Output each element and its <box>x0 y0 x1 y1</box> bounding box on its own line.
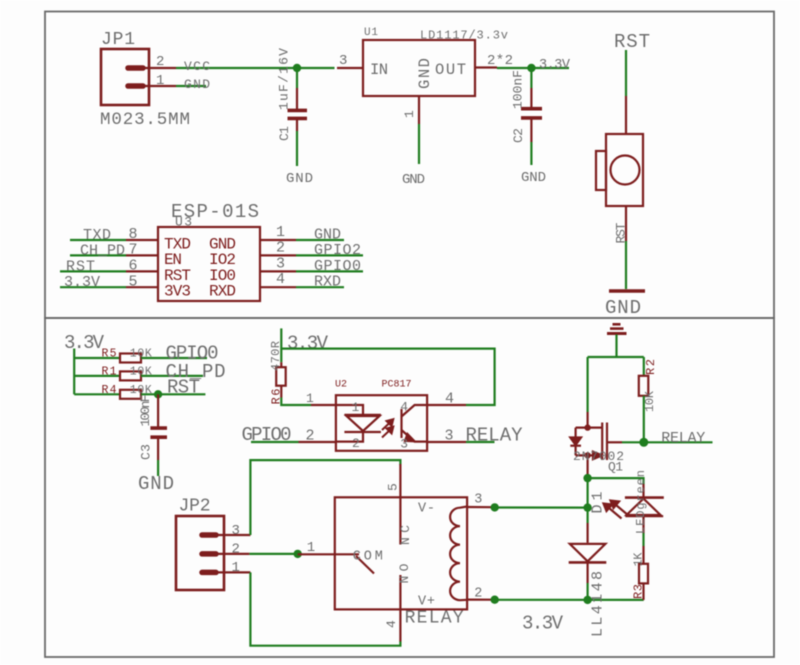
wire JP2 pin2 to COM <box>249 553 297 555</box>
net RXD <box>296 274 344 291</box>
wire row3 <box>74 393 120 395</box>
svg-text:RST: RST <box>614 222 629 243</box>
svg-text:C2: C2 <box>511 128 526 143</box>
svg-text:VCC: VCC <box>184 59 210 74</box>
resistor R1 <box>102 366 152 381</box>
svg-text:IN: IN <box>370 61 388 79</box>
wire OUT to 3.3V <box>497 67 569 69</box>
svg-text:GND: GND <box>402 172 425 188</box>
node OUT junction <box>527 64 535 72</box>
svg-text:2: 2 <box>352 436 360 451</box>
node source dot <box>584 452 590 458</box>
wire row3 to RST <box>141 393 205 395</box>
svg-text:1: 1 <box>156 73 164 89</box>
opto pin4 stub <box>427 391 466 408</box>
svg-text:3: 3 <box>232 523 240 539</box>
svg-text:2: 2 <box>156 54 164 70</box>
node D1 bottom junction <box>583 596 591 604</box>
svg-text:RELAY: RELAY <box>466 425 524 447</box>
svg-text:GND: GND <box>138 473 174 495</box>
svg-text:6: 6 <box>129 258 138 275</box>
regulator U1 <box>337 27 513 124</box>
wire RST down <box>625 50 627 96</box>
module U3 ESP-01S <box>126 201 296 301</box>
svg-text:1: 1 <box>232 560 240 576</box>
net CH_PD <box>70 242 126 259</box>
svg-text:3.3V: 3.3V <box>539 58 571 73</box>
svg-text:OUT: OUT <box>435 61 466 79</box>
net 3.3V left <box>60 274 126 291</box>
wire row2 <box>74 375 120 377</box>
svg-text:3: 3 <box>339 53 347 69</box>
svg-text:GND: GND <box>605 297 641 319</box>
svg-text:JP2: JP2 <box>179 497 211 517</box>
svg-text:4: 4 <box>400 400 408 415</box>
svg-text:470R: 470R <box>269 341 283 371</box>
net TXD <box>70 227 126 244</box>
wire gnd down to rail <box>615 335 617 358</box>
svg-text:100nF: 100nF <box>511 70 526 109</box>
switch S1 reset button <box>596 96 643 241</box>
node RST junction <box>154 390 162 398</box>
resistor R3 <box>632 546 649 600</box>
switch lever COM <box>335 553 359 555</box>
svg-text:U2: U2 <box>335 380 347 391</box>
svg-text:GND: GND <box>521 170 546 186</box>
pin V- 3 <box>467 506 491 508</box>
svg-text:5: 5 <box>386 483 401 491</box>
wire R6 to opto pin1 <box>281 398 311 406</box>
svg-text:4: 4 <box>384 620 399 628</box>
svg-text:3.3V: 3.3V <box>287 333 329 355</box>
wire drain rail <box>588 356 644 358</box>
wire row1 <box>74 357 120 359</box>
svg-text:V-: V- <box>418 502 435 517</box>
svg-text:U1: U1 <box>364 27 378 39</box>
wire C3 to gnd <box>157 460 159 476</box>
wire JP2 pin3 to relay NC <box>250 460 400 535</box>
net RELAY label right <box>644 430 713 447</box>
svg-text:RST: RST <box>614 31 650 53</box>
svg-text:Q1: Q1 <box>608 460 623 475</box>
net GPIO0 right <box>296 258 363 275</box>
wire C2 to gnd <box>530 142 532 165</box>
svg-text:M023.5MM: M023.5MM <box>100 110 190 130</box>
node relay pin2 junction <box>491 596 499 604</box>
svg-text:RELAY: RELAY <box>661 430 705 447</box>
svg-text:CH_PD: CH_PD <box>80 242 125 259</box>
svg-text:RST: RST <box>66 258 95 275</box>
wire 3.3V rail to pin4 <box>281 349 494 405</box>
wire U1 gnd <box>418 124 420 164</box>
wire LED to R3 <box>642 533 644 546</box>
svg-text:100nF: 100nF <box>138 395 153 427</box>
svg-text:GPIO0: GPIO0 <box>242 424 292 446</box>
wire C1 drop <box>296 68 298 88</box>
LED arrows <box>604 501 629 519</box>
capacitor C3 <box>150 394 167 460</box>
wire D1 to rail <box>586 583 588 600</box>
svg-text:R3: R3 <box>632 584 646 599</box>
resistor R2 <box>639 357 658 442</box>
svg-text:2*2: 2*2 <box>487 53 513 69</box>
resistor R4 <box>102 384 152 399</box>
svg-text:4: 4 <box>276 271 285 288</box>
svg-text:C3: C3 <box>139 444 154 460</box>
node source junction <box>583 474 591 482</box>
svg-text:2: 2 <box>474 587 482 602</box>
svg-text:3: 3 <box>276 255 285 272</box>
svg-text:1K: 1K <box>632 552 646 567</box>
net GND right <box>296 227 344 244</box>
connector JP2 <box>176 516 250 590</box>
connector JP1 <box>101 49 176 105</box>
wire 3.3V stub up <box>280 328 282 362</box>
pin NO 4 <box>399 575 401 642</box>
svg-text:RXD: RXD <box>209 283 236 301</box>
net GND stub JP1 <box>176 77 210 92</box>
wire relay pin3 to D1 <box>491 506 587 508</box>
phototransistor U2 <box>402 405 428 442</box>
wire row1 to GPIO0 <box>141 357 207 359</box>
svg-text:COM: COM <box>353 550 383 565</box>
svg-text:7: 7 <box>129 242 138 259</box>
svg-text:LD1117/3.3v: LD1117/3.3v <box>420 29 508 43</box>
wire C1 to gnd <box>296 131 298 166</box>
svg-text:R5: R5 <box>102 348 117 361</box>
ground symbol button <box>609 289 645 293</box>
wire to LED branch <box>588 478 644 484</box>
node RELAY junction <box>639 438 648 447</box>
svg-text:R2: R2 <box>644 359 658 375</box>
svg-text:R1: R1 <box>102 366 117 379</box>
svg-text:5: 5 <box>129 273 138 290</box>
svg-text:GPIO2: GPIO2 <box>314 242 361 259</box>
svg-text:3: 3 <box>445 428 454 445</box>
net RELAY opto <box>427 425 523 447</box>
resistor R6 <box>269 341 286 405</box>
svg-text:2: 2 <box>232 542 240 558</box>
diode D1 <box>569 523 607 583</box>
LED LED1 <box>625 484 664 533</box>
svg-text:4: 4 <box>445 391 454 408</box>
capacitor C2 <box>521 88 542 142</box>
svg-text:1: 1 <box>306 391 314 406</box>
svg-text:3.3V: 3.3V <box>522 613 564 635</box>
svg-text:8: 8 <box>129 226 138 243</box>
svg-text:GPIO0: GPIO0 <box>314 258 361 275</box>
svg-text:1: 1 <box>402 110 417 118</box>
svg-text:RST: RST <box>167 377 200 399</box>
net GPIO2 <box>296 242 363 259</box>
svg-text:R4: R4 <box>102 384 117 397</box>
svg-text:PC817: PC817 <box>382 380 412 391</box>
wire drain drop <box>586 357 588 412</box>
svg-text:1: 1 <box>307 540 315 556</box>
svg-text:JP1: JP1 <box>101 30 135 50</box>
wire gate to relay node <box>607 441 622 443</box>
svg-text:GND: GND <box>416 58 434 89</box>
svg-text:2: 2 <box>306 428 315 445</box>
coil <box>450 507 467 601</box>
svg-text:3: 3 <box>400 437 408 452</box>
wire 3.3V vertical <box>73 349 75 395</box>
pin V+ 2 <box>467 598 491 600</box>
transistor Q1 2N7002 <box>570 412 607 474</box>
svg-text:U3: U3 <box>175 215 192 230</box>
node drain dot <box>584 424 590 430</box>
svg-text:RXD: RXD <box>314 274 341 291</box>
wire source down <box>586 474 588 508</box>
pin COM lead <box>298 553 335 555</box>
svg-text:LEDgreen: LEDgreen <box>634 470 648 534</box>
pin NC 5 <box>399 464 401 545</box>
resistor R5 <box>102 348 152 363</box>
node VCC junction <box>293 64 301 72</box>
wire button to gnd <box>625 241 627 289</box>
svg-text:10K: 10K <box>643 390 657 412</box>
optocoupler U2 PC817 <box>306 380 427 452</box>
ground symbol Q1 top (flipped) <box>607 324 627 333</box>
node D1 junction <box>583 503 591 511</box>
svg-text:3.3V: 3.3V <box>64 274 100 291</box>
svg-text:RELAY: RELAY <box>405 609 464 629</box>
svg-text:C1: C1 <box>277 126 292 141</box>
light arrows U2 <box>382 419 393 437</box>
LED inside U2 <box>336 405 381 442</box>
net GPIO0 opto <box>242 424 336 446</box>
wire row2 to CH_PD <box>141 375 203 377</box>
svg-text:3.3V: 3.3V <box>64 332 105 354</box>
relay K1 <box>335 464 491 642</box>
svg-text:3V3: 3V3 <box>164 283 191 301</box>
net VCC <box>176 59 335 74</box>
net RST left <box>60 258 126 275</box>
wire 3.3V bottom rail <box>491 599 644 601</box>
svg-text:1: 1 <box>352 400 360 415</box>
wire JP2 pin1 to relay NO <box>250 572 400 645</box>
svg-text:3: 3 <box>474 493 482 508</box>
capacitor C1 <box>288 88 308 131</box>
node relay pin3 junction <box>491 503 499 511</box>
svg-text:2: 2 <box>276 239 285 256</box>
svg-text:1uF/16V: 1uF/16V <box>277 48 292 110</box>
wire C2 drop <box>530 68 532 88</box>
svg-text:GND: GND <box>286 171 313 187</box>
svg-text:V+: V+ <box>418 595 435 610</box>
node COM junction <box>294 550 302 558</box>
svg-text:GND: GND <box>184 77 210 92</box>
